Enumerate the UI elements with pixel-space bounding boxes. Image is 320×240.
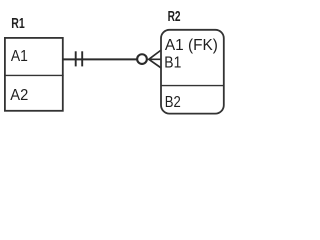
crow's foot (many) <box>149 50 161 68</box>
entity R1 box <box>5 38 63 111</box>
cardinality circle (zero) <box>137 54 147 64</box>
cardinality tick 2 (exactly one) <box>81 51 83 66</box>
svg-text:R2: R2 <box>168 8 181 25</box>
svg-text:B1: B1 <box>164 55 181 72</box>
entity R2 attribute divider <box>161 85 224 87</box>
svg-text:A2: A2 <box>10 87 28 104</box>
svg-text:A1: A1 <box>11 48 28 65</box>
cardinality tick 1 (exactly one) <box>75 51 77 66</box>
entity R1 attribute divider <box>4 74 63 76</box>
svg-text:A1 (FK): A1 (FK) <box>165 37 218 54</box>
wire: relationship line R1 to R2 <box>63 58 138 60</box>
entity R2 rounded box <box>161 30 224 114</box>
svg-text:B2: B2 <box>165 94 181 111</box>
svg-text:R1: R1 <box>11 15 24 32</box>
